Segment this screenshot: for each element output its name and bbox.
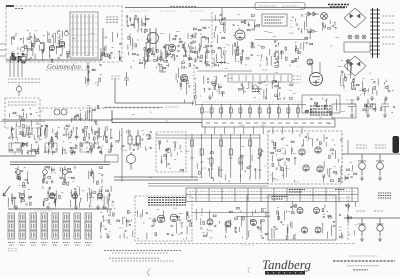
junction at detector bus <box>221 19 223 21</box>
driver misc parts <box>197 150 263 182</box>
bottom dashed return <box>136 243 356 245</box>
preamp stage 4 parts <box>91 186 114 208</box>
dial lamp LP1 <box>321 13 328 20</box>
push-pull valve V9 <box>297 208 303 214</box>
FM tuner enclosure (dashed) <box>6 6 122 62</box>
coupling network parts <box>116 130 152 151</box>
power section label <box>328 5 349 8</box>
push-pull valve V11 <box>302 227 308 233</box>
mains input parts <box>301 28 315 50</box>
switch position labels <box>293 76 301 83</box>
main filter cap C40 <box>358 154 366 176</box>
pen mark right <box>248 267 250 273</box>
switch wafer labels <box>8 243 92 246</box>
resistor row values <box>202 101 302 103</box>
coupling parts mid <box>159 65 168 73</box>
speaker connect dashes <box>347 196 349 240</box>
coupling cap C20 <box>124 72 129 86</box>
speaker labels b <box>374 210 384 212</box>
preamp valve V6 <box>49 193 54 198</box>
dark knob at right edge <box>393 136 400 153</box>
mid vertical feed L <box>115 78 194 103</box>
power transformer T10 <box>370 8 380 58</box>
tone stack parts <box>159 140 184 171</box>
filter ground b <box>370 96 374 100</box>
preamp valve V7 <box>72 193 77 198</box>
antenna terminal ticks <box>0 44 6 56</box>
bottom box feed lines <box>148 184 268 187</box>
detector label dark <box>217 62 226 64</box>
speaker terminal cap C51 <box>377 218 384 236</box>
cap feed vertical <box>347 140 349 154</box>
coil labels c <box>190 10 204 12</box>
note 1 line 1 <box>104 250 181 252</box>
IF transformer strings <box>214 15 235 67</box>
tone pot P2 <box>16 166 21 180</box>
AF input cell 1 <box>8 126 25 141</box>
IF stage note text <box>106 17 118 22</box>
push-pull right parts <box>322 205 335 239</box>
indicator drive parts <box>340 76 355 91</box>
AF input cell 5 <box>82 126 97 140</box>
svg-text:Tandberg: Tandberg <box>262 257 311 272</box>
band switch bar S1 <box>228 74 292 82</box>
speaker terminal ground 1 <box>378 237 382 241</box>
tone pot P3 <box>43 166 48 180</box>
dropper resistor row R40-R50 <box>196 104 306 118</box>
FM mixer valve V1 <box>49 45 54 50</box>
can value labels <box>346 99 355 101</box>
FM tuner label <box>15 8 24 10</box>
phono socket J1 <box>54 109 67 115</box>
preamp stage 3 parts <box>70 186 91 207</box>
push-pull valve V12 <box>315 227 321 233</box>
output transistor Q2 <box>315 147 321 153</box>
preamp valve V5 <box>19 193 24 198</box>
loudness pot P5 <box>127 152 136 170</box>
left IF chain parts <box>200 27 215 64</box>
bandwidth filter box <box>262 14 287 26</box>
driver valve V8a <box>207 219 213 225</box>
input bus <box>2 119 112 121</box>
Tandberg logo banner <box>265 271 305 275</box>
voltage selector box <box>344 42 370 52</box>
push-pull box <box>268 195 336 240</box>
AF filter cell 1 <box>10 142 26 154</box>
amp right network <box>323 139 342 182</box>
can ground 0 <box>350 113 354 117</box>
FM RF stage parts <box>12 30 70 62</box>
AM IF valve V3 <box>168 44 175 51</box>
chassis arrow <box>3 186 10 196</box>
input pad box <box>105 155 118 162</box>
can ground 1 <box>366 113 370 117</box>
detector upper parts <box>238 15 260 31</box>
preamp ground 3 <box>96 205 100 209</box>
detector feed wire <box>221 8 223 20</box>
AGC bus label <box>165 106 179 108</box>
switch label text <box>252 89 262 92</box>
switch feed wire <box>197 70 252 72</box>
mains filter parts <box>322 20 337 30</box>
table heading dark text b <box>335 189 345 191</box>
phono preamp enclosure (dashed) <box>135 196 192 241</box>
switch grid subtitle <box>34 210 52 212</box>
AF filter cell 2 <box>26 142 39 155</box>
IF strip divider (dashed) <box>211 12 213 68</box>
drawing number <box>353 269 368 271</box>
HT rail wire <box>300 7 345 9</box>
title line faint <box>349 255 377 257</box>
AF bus upper <box>156 134 260 136</box>
aux network parts <box>363 103 395 113</box>
balance resistors R21 R22 <box>128 130 140 150</box>
component value annotations <box>16 31 374 238</box>
AM section lower wires <box>131 61 209 69</box>
FM ground rail <box>6 59 102 61</box>
bottom right bus <box>344 217 400 219</box>
ratio detector parts <box>257 41 301 67</box>
push-pull left parts <box>249 209 268 239</box>
AM/IF section top rail <box>125 7 345 9</box>
driver stage component strings <box>190 134 261 178</box>
bottom connector ground <box>106 234 110 238</box>
main bus line 2 <box>112 110 202 123</box>
filter adjacent parts <box>290 15 308 31</box>
rectifier output parts <box>341 59 351 81</box>
left rail <box>0 155 36 157</box>
speaker bus <box>342 153 400 155</box>
output transistor Q4 <box>317 166 323 172</box>
mid text rows <box>111 76 121 79</box>
AF filter cell 3 <box>44 141 58 154</box>
detector valve V3b <box>235 30 245 40</box>
AF input cell 6 <box>97 126 112 143</box>
tone bus 1 <box>10 161 110 163</box>
input selector parts <box>9 108 38 128</box>
output stage driver Q10 <box>307 59 313 65</box>
switch wiring parts <box>238 80 292 99</box>
tone pot P4 <box>63 166 68 180</box>
left rail stub <box>0 121 45 123</box>
logo upper note <box>242 244 254 246</box>
AF feed to output <box>192 212 270 214</box>
push-pull inner parts <box>271 201 297 239</box>
table heading dark text a <box>289 190 305 193</box>
amp to cap link parts <box>345 162 357 180</box>
note 2 line 1 <box>109 257 159 259</box>
input selector label <box>8 102 36 105</box>
AF bus lower <box>156 137 260 139</box>
rectifier diode row <box>305 12 319 16</box>
filter ground a <box>356 96 360 100</box>
FM tuning capacitor parts <box>101 32 122 60</box>
bus to detector <box>200 19 256 21</box>
driver output parts <box>196 208 244 239</box>
valve data table frame <box>186 188 358 202</box>
AM input extra parts <box>128 35 151 62</box>
electrolytic can C30 <box>348 99 356 113</box>
AGC tick bus <box>104 106 163 109</box>
can ground 2 <box>383 113 387 117</box>
preamp stage 2 parts <box>43 186 63 207</box>
bridge rectifier BR1 <box>344 8 366 28</box>
pen mark left <box>148 269 151 276</box>
filter cap labels <box>356 145 367 148</box>
filter cap ground 1 <box>378 176 382 180</box>
output transistor Q3 <box>303 165 309 171</box>
pickup arm parts <box>101 215 110 238</box>
oscillator coil L3 <box>148 28 159 52</box>
note 2 line 2 <box>112 260 175 262</box>
output right parts <box>339 202 356 239</box>
AF cell box 2 <box>45 143 57 152</box>
push-pull valve V10 <box>314 208 320 214</box>
tone stage 4 parts <box>89 167 103 184</box>
tone stage 1 parts <box>15 168 29 186</box>
wave-band switch banner <box>202 119 335 127</box>
AGC dashed bus <box>38 107 105 109</box>
note 1 line 2 <box>112 252 169 254</box>
AM converter parts <box>126 15 149 32</box>
speaker terminal ground 0 <box>360 237 364 241</box>
switch grid title <box>30 208 56 210</box>
AF input cell 2 <box>26 126 43 141</box>
tone stage 3 parts <box>60 167 76 185</box>
phase splitter valve <box>251 220 257 226</box>
power amplifier enclosure (dashed) <box>268 131 342 184</box>
output transistor Q1 <box>299 149 305 155</box>
preamp ground 2 <box>74 205 78 209</box>
switch wafer diagram grid <box>8 213 92 239</box>
top rail label <box>170 6 196 8</box>
IF transformer T2 parts <box>166 34 187 61</box>
push-pull box label <box>272 197 287 200</box>
valve table row 1 text <box>189 191 355 193</box>
main bus line 1 <box>112 118 202 120</box>
preamp ground rail <box>8 208 112 210</box>
detector diode parts <box>234 41 254 64</box>
mains switch box <box>255 3 305 10</box>
border tick top-left <box>6 5 14 7</box>
connection labels <box>8 79 40 82</box>
speaker terminal cap C50 <box>359 218 366 236</box>
AF filter cell 6 <box>97 141 113 154</box>
main filter cap C41 <box>376 154 384 176</box>
amp left network <box>271 139 298 183</box>
preamp valve V8 <box>97 193 102 198</box>
decoupling box <box>302 95 340 113</box>
feedback bus pair <box>114 177 198 180</box>
FM oscillator valve V2 <box>59 41 64 46</box>
FM IF coil block <box>70 12 98 58</box>
B+ filter parts <box>356 79 393 96</box>
AF input cell 3 <box>45 125 60 141</box>
amp top network <box>300 133 328 146</box>
preamp ground 0 <box>14 205 18 209</box>
fuse symbols <box>348 35 366 39</box>
banner to row stubs <box>205 127 302 134</box>
filter cap labels b <box>375 145 386 148</box>
preamp ground 1 <box>46 205 50 209</box>
tuning indicator valve V4 <box>310 73 323 86</box>
annotation underline <box>46 69 94 71</box>
title main line <box>333 260 395 262</box>
electrolytic can C31 <box>364 99 372 113</box>
indicator wires <box>312 62 320 73</box>
output section left edge <box>246 195 248 240</box>
driver valve V8b <box>225 221 231 227</box>
switch network parts <box>85 64 101 86</box>
coil labels b <box>160 10 176 12</box>
wafer footnote <box>8 249 18 251</box>
FM tall coil <box>102 28 104 55</box>
decoupling network parts <box>305 98 337 114</box>
valve table row 2 text <box>189 197 355 199</box>
transformer voltage labels <box>382 16 395 44</box>
AM mixer stage parts <box>147 44 171 62</box>
IF amplifier parts <box>188 28 208 63</box>
AF takeoff parts <box>200 76 226 97</box>
filter cap ground 0 <box>360 176 364 180</box>
bridge rectifier BR2 <box>344 56 366 76</box>
filter ground c <box>384 96 388 100</box>
electrolytic can C32 <box>381 99 389 113</box>
AF preamp valve V4a <box>181 75 188 82</box>
tone bus 2 <box>10 164 110 166</box>
tone stage 2 parts <box>43 166 56 183</box>
volume pot P1 <box>16 84 21 96</box>
AF preamp parts <box>176 65 196 106</box>
phono input network <box>72 105 99 124</box>
preamp stage 1 parts <box>8 185 32 207</box>
detector dashed drop <box>193 64 195 103</box>
bottom connector parts <box>101 207 133 239</box>
phono preamp parts <box>137 209 191 239</box>
AF cell box 3 <box>80 143 92 152</box>
phono valve V7 <box>157 215 165 223</box>
record/play switch S2 <box>87 62 89 85</box>
table side note text <box>378 193 391 198</box>
speaker labels <box>356 210 366 212</box>
coil labels a <box>130 10 148 12</box>
title line 3 <box>347 265 379 267</box>
tone section feed <box>121 128 123 182</box>
AF feed lower <box>236 216 270 218</box>
FM output drop wires <box>10 62 22 77</box>
detector rail <box>255 39 308 41</box>
FM antenna input parts <box>10 52 25 63</box>
ground at detector <box>208 95 212 99</box>
component legend text block <box>148 198 186 206</box>
AF filter cell 4 <box>62 142 77 155</box>
AF cell box 1 <box>9 143 21 152</box>
voltage table frame <box>332 104 356 118</box>
tone stack enclosure (dashed) <box>156 132 186 172</box>
AF filter cell 5 <box>80 142 97 155</box>
voltage table text <box>310 106 332 115</box>
input selector enclosure (dashed) <box>5 98 40 128</box>
phono valve V8 <box>170 214 178 222</box>
AF input cell 4 <box>63 125 78 140</box>
